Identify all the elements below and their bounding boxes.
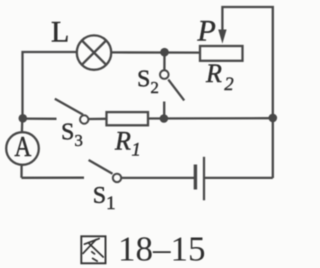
junction node top (S2/R2/lamp)	[160, 48, 169, 57]
svg-text:S3: S3	[61, 120, 83, 150]
rheostat R2 body	[200, 46, 243, 61]
ammeter A	[6, 118, 39, 177]
svg-text:18–15: 18–15	[118, 230, 206, 268]
svg-text:L: L	[51, 16, 69, 49]
svg-text:P: P	[197, 15, 216, 48]
wire R1 to right rail	[148, 117, 273, 120]
switch S3	[55, 99, 107, 124]
switch S2	[160, 52, 184, 118]
svg-text:S2: S2	[137, 67, 159, 98]
svg-text:R2: R2	[205, 59, 234, 95]
junction node right rail	[269, 114, 278, 123]
svg-text:S1: S1	[93, 183, 116, 214]
switch S1	[89, 160, 195, 182]
svg-text:A: A	[14, 131, 31, 162]
wire bottom rail	[22, 177, 85, 179]
slider arrow P wire	[222, 7, 272, 178]
caption character 图	[81, 236, 105, 263]
svg-text:R1: R1	[114, 127, 141, 161]
wire lamp to R2	[111, 51, 200, 53]
resistor R1	[107, 112, 149, 125]
battery cell	[195, 157, 272, 201]
slider arrow head	[218, 30, 226, 44]
wire left vertical (top loop)	[23, 52, 77, 118]
junction node left (A/S3)	[19, 114, 28, 123]
wire middle rail	[23, 117, 57, 120]
lamp L	[77, 35, 111, 69]
junction node middle (R1/S2)	[160, 114, 169, 123]
